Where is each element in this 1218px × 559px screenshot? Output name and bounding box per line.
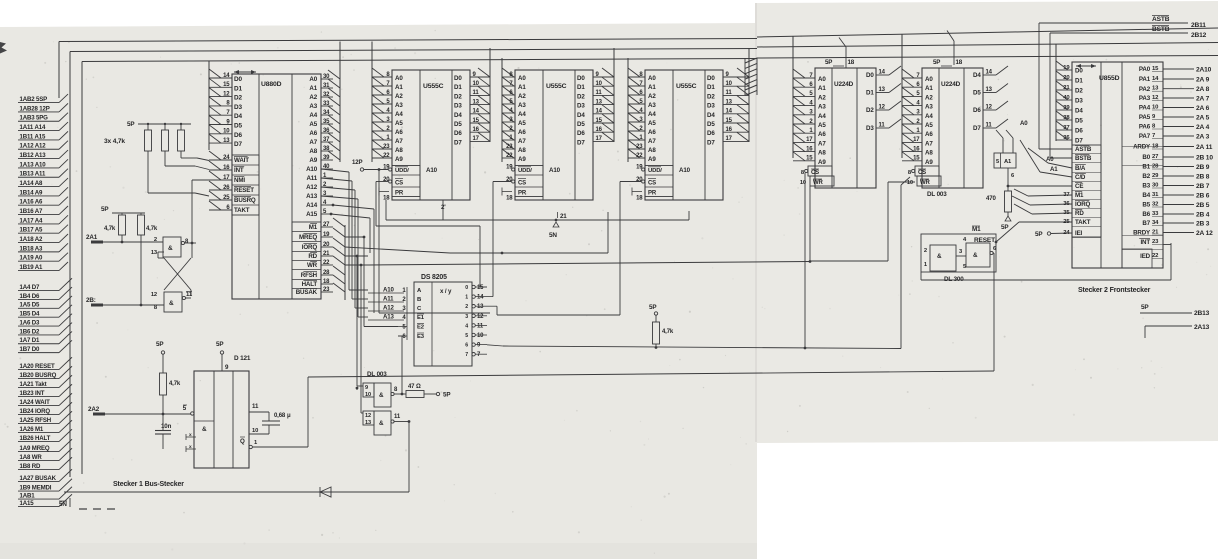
svg-text:1A26 M1: 1A26 M1 [20,426,44,433]
svg-text:A15: A15 [306,211,318,218]
svg-text:1AB3 5PG: 1AB3 5PG [20,115,49,122]
svg-text:D 121: D 121 [234,355,251,362]
svg-text:5P: 5P [127,121,134,128]
svg-text:B4: B4 [1142,192,1150,199]
svg-text:5: 5 [465,333,468,339]
svg-text:A11: A11 [383,296,394,303]
svg-text:1A7 D1: 1A7 D1 [20,337,41,344]
svg-text:PA2: PA2 [1139,86,1151,93]
svg-text:4,7k: 4,7k [662,329,674,335]
svg-text:19: 19 [323,232,330,238]
svg-text:A4: A4 [518,111,526,118]
svg-text:A0: A0 [395,75,403,82]
svg-text:A4: A4 [925,113,933,120]
svg-text:19: 19 [636,165,643,171]
svg-text:B0: B0 [1142,154,1150,161]
svg-text:14: 14 [223,73,230,79]
svg-text:PA4: PA4 [1139,105,1151,112]
svg-text:11: 11 [879,123,886,129]
svg-text:IORQ: IORQ [302,244,318,251]
svg-text:D0: D0 [866,72,874,79]
svg-text:2B 10: 2B 10 [1196,154,1213,161]
svg-text:3x 4,7k: 3x 4,7k [104,138,125,145]
svg-text:15: 15 [223,82,230,88]
svg-text:2B13: 2B13 [1194,310,1210,317]
svg-text:CS: CS [518,181,526,187]
svg-text:1A14 A8: 1A14 A8 [20,180,44,187]
svg-text:17: 17 [223,175,230,181]
svg-text:16: 16 [913,146,920,152]
svg-text:35: 35 [1063,210,1070,216]
svg-text:18: 18 [323,279,330,285]
svg-text:D5: D5 [234,123,242,130]
svg-text:A3: A3 [309,103,317,110]
svg-text:33: 33 [323,101,330,107]
svg-text:WR: WR [813,180,824,186]
svg-text:A1: A1 [925,85,933,92]
svg-text:A10: A10 [426,167,438,174]
svg-text:13: 13 [879,87,886,93]
svg-text:10: 10 [365,392,371,398]
svg-text:RD: RD [1075,210,1084,217]
svg-text:D1: D1 [707,84,715,91]
svg-text:2B 8: 2B 8 [1196,173,1210,180]
svg-text:B/A: B/A [1075,165,1086,172]
svg-text:A11: A11 [306,175,317,182]
svg-text:&: & [202,426,207,433]
svg-text:4,7k: 4,7k [104,226,116,232]
svg-text:A10: A10 [383,287,394,294]
svg-text:36: 36 [1063,201,1070,207]
svg-text:2A 3: 2A 3 [1196,133,1210,140]
svg-text:21: 21 [1063,85,1070,91]
svg-text:11: 11 [186,292,193,298]
svg-text:A0: A0 [1020,120,1028,127]
svg-text:A8: A8 [395,147,403,154]
svg-text:PA0: PA0 [1139,66,1151,73]
svg-text:D2: D2 [866,107,874,114]
svg-text:12: 12 [365,413,371,419]
svg-text:39: 39 [1063,105,1070,111]
svg-text:2A10: 2A10 [1196,66,1212,73]
svg-text:1B4 D6: 1B4 D6 [20,293,41,300]
svg-text:IED: IED [1140,253,1151,260]
svg-text:2: 2 [465,304,468,310]
svg-text:1AB28 12P: 1AB28 12P [20,105,50,112]
svg-text:14: 14 [1152,76,1159,82]
svg-text:D7: D7 [973,125,981,132]
svg-text:12: 12 [1152,95,1159,101]
svg-text:18: 18 [383,196,390,202]
svg-text:NMI: NMI [234,177,245,184]
svg-text:B6: B6 [1142,211,1150,218]
svg-text:U855D: U855D [1099,75,1120,82]
svg-text:2A1: 2A1 [86,234,98,241]
svg-text:0: 0 [465,285,468,291]
svg-text:5P: 5P [649,304,656,311]
svg-text:&: & [379,420,384,427]
svg-text:14: 14 [986,70,993,76]
svg-text:5N: 5N [549,232,557,239]
svg-text:HALT: HALT [302,281,318,288]
svg-text:27: 27 [323,222,330,228]
svg-text:1B23 INT: 1B23 INT [20,390,45,397]
svg-text:A9: A9 [925,159,933,166]
svg-text:19: 19 [506,165,513,171]
svg-text:25: 25 [1063,219,1070,225]
svg-text:CS: CS [395,181,403,187]
svg-text:15: 15 [726,118,733,124]
svg-text:1: 1 [465,295,468,301]
svg-text:23: 23 [383,144,390,150]
svg-text:1B26 HALT: 1B26 HALT [20,435,51,442]
svg-text:DL 300: DL 300 [944,276,964,283]
svg-text:17: 17 [726,136,733,142]
svg-text:11: 11 [596,90,603,96]
svg-text:RD: RD [308,253,317,260]
svg-text:25: 25 [223,195,230,201]
svg-text:A7: A7 [648,138,656,145]
svg-text:4: 4 [465,323,468,329]
svg-text:A6: A6 [395,129,403,136]
svg-text:D2: D2 [1075,88,1083,95]
svg-text:10: 10 [726,81,733,87]
svg-text:14: 14 [879,70,886,76]
svg-text:A12: A12 [383,305,394,312]
svg-text:1A8 WR: 1A8 WR [20,454,43,461]
svg-text:2: 2 [924,248,927,254]
svg-text:PA5: PA5 [1139,114,1151,121]
svg-text:2A 7: 2A 7 [1196,95,1210,102]
svg-text:13: 13 [151,250,158,256]
svg-text:BSTB: BSTB [1152,26,1170,33]
svg-text:20: 20 [323,242,330,248]
svg-text:11: 11 [252,403,259,410]
svg-text:UDD/: UDD/ [395,168,409,174]
svg-text:A0: A0 [925,76,933,83]
svg-text:17: 17 [596,136,603,142]
svg-text:PR: PR [395,191,404,197]
svg-text:A9: A9 [648,156,656,163]
svg-text:D6: D6 [454,130,462,137]
svg-text:11: 11 [394,414,401,420]
svg-text:MREQ: MREQ [299,234,317,241]
svg-text:5P: 5P [1001,224,1008,231]
svg-text:34: 34 [323,110,330,116]
svg-text:A5: A5 [648,120,656,127]
svg-text:TAKT: TAKT [1075,219,1091,226]
svg-text:PA6: PA6 [1139,124,1151,131]
svg-text:15: 15 [913,156,920,162]
svg-text:14: 14 [596,109,603,115]
svg-text:5P: 5P [216,341,223,348]
svg-text:4,7k: 4,7k [169,381,181,387]
svg-text:U555C: U555C [546,83,567,90]
svg-text:1A18 A2: 1A18 A2 [20,236,44,243]
svg-text:12P: 12P [352,159,362,166]
svg-text:A3: A3 [925,104,933,111]
svg-text:A1: A1 [395,84,403,91]
svg-text:U224D: U224D [941,81,961,88]
svg-text:1A25 RFSH: 1A25 RFSH [20,417,52,424]
svg-text:A5: A5 [518,120,526,127]
svg-text:D0: D0 [707,75,715,82]
svg-text:Ω: Ω [416,384,421,390]
svg-text:2B 5: 2B 5 [1196,202,1210,209]
svg-text:PA7: PA7 [1139,133,1151,140]
svg-text:A13: A13 [383,314,394,321]
svg-text:D1: D1 [577,84,585,91]
svg-text:2B 6: 2B 6 [1196,192,1210,199]
svg-text:36: 36 [1063,135,1070,141]
svg-text:DS 8205: DS 8205 [421,274,447,281]
svg-text:1AB1: 1AB1 [20,493,36,500]
svg-text:10: 10 [1152,105,1159,111]
svg-text:14: 14 [726,109,733,115]
svg-text:D5: D5 [577,121,585,128]
svg-text:2': 2' [441,204,446,211]
svg-text:10n: 10n [161,423,172,430]
svg-text:A14: A14 [306,202,318,209]
svg-text:A0: A0 [518,75,526,82]
svg-text:17: 17 [473,136,480,142]
svg-text:x / y: x / y [440,288,452,295]
svg-text:BUSAK: BUSAK [296,289,318,296]
svg-text:10: 10 [596,81,603,87]
svg-text:1B5 D4: 1B5 D4 [20,311,41,318]
svg-text:5P: 5P [1035,231,1042,238]
svg-text:5P: 5P [443,392,450,399]
svg-text:2B:: 2B: [86,297,96,304]
svg-text:16: 16 [806,146,813,152]
svg-text:D4: D4 [707,112,715,119]
svg-text:24: 24 [1063,230,1070,236]
svg-text:A6: A6 [518,129,526,136]
svg-text:&: & [973,252,978,259]
svg-text:1B11 A15: 1B11 A15 [20,133,46,140]
svg-text:1AB2 5SP: 1AB2 5SP [20,96,48,103]
svg-text:13: 13 [477,304,484,310]
svg-text:PR: PR [648,191,657,197]
svg-text:ASTB: ASTB [1075,146,1092,153]
svg-text:A9: A9 [518,156,526,163]
svg-text:DL 003: DL 003 [927,191,947,198]
svg-text:19: 19 [1063,65,1070,71]
svg-text:40: 40 [1063,95,1070,101]
svg-text:29: 29 [1152,173,1159,179]
svg-text:1B8 RD: 1B8 RD [20,463,42,470]
svg-text:1A15: 1A15 [20,500,35,507]
svg-text:D3: D3 [1075,98,1083,105]
svg-text:15: 15 [806,156,813,162]
svg-text:1B16 A7: 1B16 A7 [20,208,44,215]
svg-text:A3: A3 [818,104,826,111]
svg-text:1B18 A3: 1B18 A3 [20,245,44,252]
svg-text:21: 21 [1152,230,1159,236]
svg-text:18: 18 [848,59,855,66]
svg-text:2B12: 2B12 [1191,32,1207,39]
svg-text:15: 15 [1152,66,1159,72]
svg-text:INT: INT [1140,239,1150,246]
svg-text:13: 13 [986,87,993,93]
svg-text:17: 17 [806,137,813,143]
svg-text:1A20 RESET: 1A20 RESET [20,363,56,370]
svg-text:D1: D1 [866,90,874,97]
svg-text:10: 10 [473,81,480,87]
svg-text:11: 11 [986,123,993,129]
svg-text:B1: B1 [1142,164,1150,171]
svg-text:D7: D7 [577,139,585,146]
svg-text:D7: D7 [234,141,242,148]
svg-text:A6: A6 [818,131,826,138]
svg-text:B: B [417,297,421,303]
svg-text:A5: A5 [818,122,826,129]
svg-text:D0: D0 [234,76,242,83]
svg-text:INT: INT [234,167,244,174]
svg-text:13: 13 [1152,86,1159,92]
svg-text:U880D: U880D [261,81,282,88]
svg-text:2A2: 2A2 [88,406,100,413]
svg-text:RESET: RESET [234,187,254,194]
svg-text:A0: A0 [648,75,656,82]
svg-text:D2: D2 [234,95,242,102]
svg-text:39: 39 [323,155,330,161]
svg-text:2B 4: 2B 4 [1196,211,1210,218]
svg-text:A4: A4 [309,112,317,119]
svg-text:31: 31 [323,83,330,89]
svg-text:12: 12 [879,105,886,111]
svg-text:A9: A9 [818,159,826,166]
svg-text:14: 14 [473,109,480,115]
svg-text:1A21 Takt: 1A21 Takt [20,381,47,388]
svg-text:5P: 5P [933,59,940,66]
svg-text:18: 18 [506,196,513,202]
svg-text:3: 3 [465,314,468,320]
svg-text:A3: A3 [395,102,403,109]
svg-text:12: 12 [986,105,993,111]
svg-text:UDD/: UDD/ [648,168,662,174]
svg-text:1A5 D5: 1A5 D5 [20,302,41,309]
svg-text:A10: A10 [549,167,561,174]
svg-text:D7: D7 [1075,138,1083,145]
svg-text:2A 4: 2A 4 [1196,124,1210,131]
svg-text:23: 23 [323,287,330,293]
svg-text:A2: A2 [648,93,656,100]
svg-text:μ: μ [287,413,291,419]
svg-text:DL 003: DL 003 [367,371,387,378]
svg-text:WR: WR [920,180,931,186]
svg-text:D1: D1 [1075,78,1083,85]
svg-text:D0: D0 [577,75,585,82]
svg-text:A8: A8 [648,147,656,154]
svg-text:37: 37 [1063,192,1070,198]
svg-text:2A13: 2A13 [1194,324,1210,331]
svg-text:26: 26 [223,185,230,191]
svg-text:CS: CS [648,181,656,187]
svg-text:A4: A4 [648,111,656,118]
svg-text:CS: CS [811,170,819,176]
svg-text:A6: A6 [309,130,317,137]
svg-text:D3: D3 [454,103,462,110]
svg-text:A5: A5 [309,121,317,128]
svg-text:D5: D5 [1075,118,1083,125]
svg-text:D3: D3 [707,103,715,110]
svg-text:D3: D3 [234,104,242,111]
svg-text:1B17 A5: 1B17 A5 [20,227,44,234]
svg-text:CS: CS [918,170,926,176]
svg-text:A1: A1 [818,85,826,92]
svg-text:A5: A5 [395,120,403,127]
svg-text:36: 36 [323,128,330,134]
svg-text:D6: D6 [1075,128,1083,135]
svg-text:ASTB: ASTB [1152,16,1170,23]
svg-text:47: 47 [408,384,415,390]
svg-text:ARDY: ARDY [1133,144,1151,151]
svg-text:23: 23 [1152,239,1159,245]
svg-text:1A13 A10: 1A13 A10 [20,161,47,168]
svg-text:E2: E2 [417,325,425,331]
svg-text:1B20 BUSRQ: 1B20 BUSRQ [20,372,57,379]
svg-text:D0: D0 [1075,68,1083,75]
svg-text:0,68: 0,68 [274,413,286,419]
svg-text:2B 7: 2B 7 [1196,183,1210,190]
svg-text:D7: D7 [707,139,715,146]
svg-text:5N: 5N [59,501,67,508]
svg-text:A2: A2 [395,93,403,100]
svg-text:1B19 A1: 1B19 A1 [20,264,44,271]
svg-text:D1: D1 [454,84,462,91]
svg-text:30: 30 [1152,183,1159,189]
svg-text:A7: A7 [395,138,403,145]
svg-text:2A 12: 2A 12 [1196,230,1213,237]
svg-text:1A24 WAIT: 1A24 WAIT [20,399,51,406]
svg-text:A10: A10 [306,166,318,173]
svg-text:7: 7 [465,352,468,358]
svg-text:D2: D2 [454,93,462,100]
svg-text:A1: A1 [1004,159,1012,165]
svg-text:E3: E3 [417,334,425,340]
svg-text:15: 15 [477,285,484,291]
svg-text:&: & [168,245,173,252]
svg-text:34: 34 [1152,220,1159,226]
svg-text:PR: PR [518,191,527,197]
svg-text:A10: A10 [679,167,691,174]
svg-text:B3: B3 [1142,183,1150,190]
svg-text:A2: A2 [925,94,933,101]
svg-text:B5: B5 [1142,202,1150,209]
svg-text:12: 12 [477,314,484,320]
svg-text:2A 6: 2A 6 [1196,105,1210,112]
svg-text:13: 13 [726,99,733,105]
svg-text:21: 21 [560,213,567,220]
svg-text:1B7 D0: 1B7 D0 [20,346,41,353]
svg-text:1A19 A0: 1A19 A0 [20,255,44,262]
svg-text:22: 22 [636,153,643,159]
svg-text:&: & [937,253,942,260]
svg-text:A4: A4 [395,111,403,118]
svg-text:Stecker 2 Frontstecker: Stecker 2 Frontstecker [1078,287,1151,294]
svg-text:A1: A1 [648,84,656,91]
svg-text:D5: D5 [454,121,462,128]
svg-text:BSTB: BSTB [1075,155,1092,162]
svg-text:23: 23 [506,144,513,150]
svg-text:18: 18 [636,196,643,202]
svg-text:D6: D6 [577,130,585,137]
svg-text:470: 470 [986,195,996,202]
svg-text:D5: D5 [973,90,981,97]
svg-text:20: 20 [1063,75,1070,81]
svg-text:30: 30 [323,74,330,80]
